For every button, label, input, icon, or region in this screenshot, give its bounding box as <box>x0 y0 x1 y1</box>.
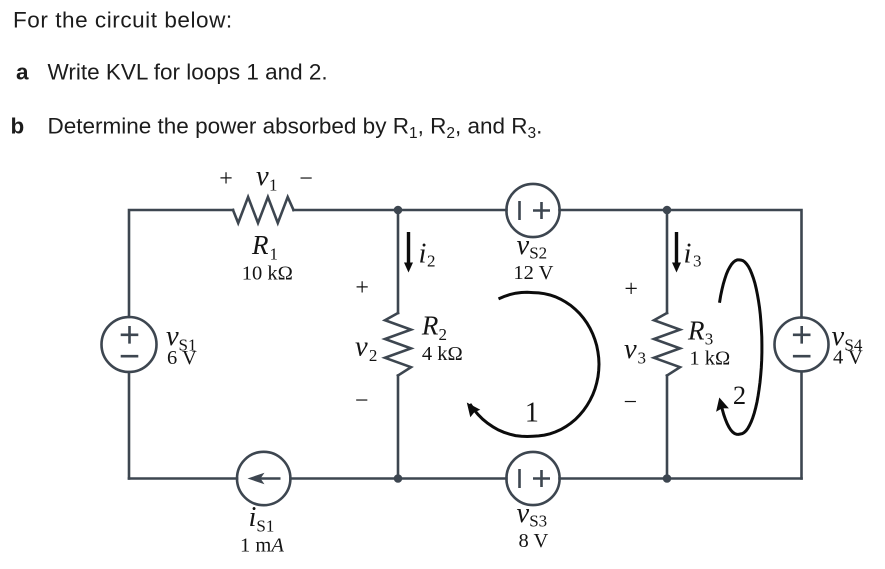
svg-text:2: 2 <box>369 346 378 365</box>
resistor R2 <box>385 313 411 376</box>
svg-text:3: 3 <box>705 330 714 349</box>
svg-text:i: i <box>249 502 257 533</box>
svg-text:Write KVL for loops 1 and 2.: Write KVL for loops 1 and 2. <box>48 60 328 85</box>
svg-text:4 V: 4 V <box>833 347 863 369</box>
loop 2 arc <box>716 260 762 435</box>
VS4 minus sign <box>793 355 811 358</box>
svg-text:8 V: 8 V <box>518 530 548 552</box>
wire R2 branch lower <box>397 376 400 479</box>
wire left below VS1 <box>128 372 131 479</box>
wire VS2 to top-right corner <box>560 210 802 318</box>
wire bottom-left to iS1 <box>129 477 237 480</box>
voltage source VS1 circle <box>102 317 157 372</box>
svg-text:Determine the power absorbed b: Determine the power absorbed by R1, R2, … <box>48 114 543 143</box>
voltage source VS2 circle <box>506 184 559 237</box>
svg-text:v: v <box>517 498 530 529</box>
loop 1 arc <box>467 292 599 436</box>
svg-text:For the circuit below:: For the circuit below: <box>13 8 233 33</box>
svg-text:6 V: 6 V <box>167 347 197 369</box>
svg-text:S2: S2 <box>529 244 547 263</box>
svg-text:i: i <box>419 239 427 270</box>
svg-text:i: i <box>684 239 692 270</box>
svg-text:1: 1 <box>525 397 539 428</box>
junction node bottom of R2 <box>394 474 403 483</box>
wire R2 branch upper <box>397 210 400 313</box>
current arrow i2 <box>404 232 413 273</box>
svg-text:2: 2 <box>427 252 436 271</box>
resistor R3 <box>654 313 680 376</box>
svg-text:b: b <box>11 114 25 139</box>
current source iS1 circle <box>237 452 290 505</box>
iS1 arrow shaft <box>259 477 281 480</box>
VS2 minus bar <box>518 201 521 220</box>
svg-text:R: R <box>421 311 439 341</box>
svg-text:+: + <box>219 166 233 192</box>
svg-text:3: 3 <box>693 252 702 271</box>
svg-text:a: a <box>16 60 29 85</box>
svg-text:1: 1 <box>269 176 278 195</box>
svg-text:S1: S1 <box>256 517 274 536</box>
VS1 plus sign <box>121 326 139 344</box>
svg-text:+: + <box>355 275 369 301</box>
junction node top of R3 <box>663 206 672 215</box>
wire VS3 to bottom-right corner <box>560 477 802 480</box>
VS3 minus bar <box>518 469 521 488</box>
svg-text:4 kΩ: 4 kΩ <box>422 343 463 365</box>
VS3 plus sign <box>533 470 550 487</box>
svg-text:+: + <box>624 277 638 303</box>
svg-text:v: v <box>624 334 637 365</box>
iS1 arrow head <box>248 473 265 485</box>
svg-text:2: 2 <box>733 380 746 410</box>
VS4 plus sign <box>793 326 811 344</box>
svg-text:1 mA: 1 mA <box>240 535 284 557</box>
VS1 minus sign <box>121 355 139 358</box>
svg-text:R: R <box>251 230 269 260</box>
svg-text:v: v <box>517 230 530 261</box>
svg-text:S3: S3 <box>529 512 547 531</box>
junction node top of R2 <box>394 206 403 215</box>
resistor R1 <box>233 197 294 223</box>
svg-text:1: 1 <box>270 245 279 264</box>
svg-text:v: v <box>355 331 368 362</box>
wire top-left: left corner to R1 <box>129 210 233 317</box>
current arrow i3 <box>672 232 681 273</box>
wire right below VS4 <box>800 372 803 479</box>
svg-text:1 kΩ: 1 kΩ <box>689 348 730 370</box>
svg-text:−: − <box>299 166 313 192</box>
svg-text:−: − <box>624 389 638 415</box>
svg-text:R: R <box>687 315 705 345</box>
voltage source VS4 circle <box>775 318 829 372</box>
VS2 plus sign <box>533 202 550 219</box>
svg-text:v: v <box>256 161 269 192</box>
junction node bottom of R3 <box>663 474 672 483</box>
svg-text:12 V: 12 V <box>513 262 553 284</box>
wire R1 to VS2 <box>294 209 507 212</box>
svg-text:3: 3 <box>638 348 647 367</box>
svg-text:10 kΩ: 10 kΩ <box>242 263 293 285</box>
wire iS1 to VS3 <box>291 477 507 480</box>
voltage source VS3 circle <box>506 452 559 505</box>
wire R3 branch upper <box>666 210 669 313</box>
wire R3 branch lower <box>666 376 669 479</box>
svg-text:2: 2 <box>439 325 448 344</box>
svg-text:−: − <box>355 388 369 414</box>
